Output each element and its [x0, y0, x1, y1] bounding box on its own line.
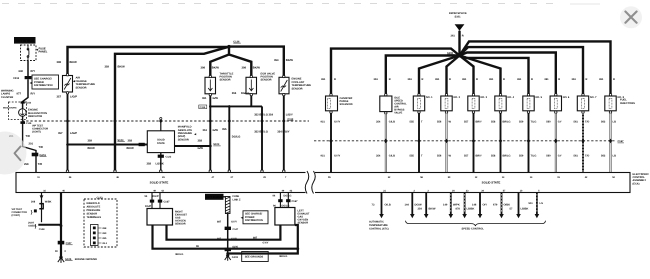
svg-text:679: 679	[493, 203, 498, 206]
label 556 W	[437, 121, 452, 124]
connector DATA hash	[32, 153, 47, 157]
hot in run feed label	[14, 37, 36, 44]
wire 354 ECT to ECA	[283, 96, 285, 173]
wire 208 W/BK	[41, 193, 43, 223]
label 878 LB/BK	[456, 208, 475, 211]
label 358 BK/W on horizontal right	[127, 140, 135, 150]
label 398 BK/W at ACT drop	[57, 61, 78, 64]
wire injector 7 to ECA	[582, 113, 584, 172]
svg-text:GY: GY	[558, 121, 562, 124]
svg-text:558: 558	[491, 155, 496, 158]
label NO. 7	[590, 96, 597, 99]
label 355 DG/LG lower	[222, 128, 240, 138]
svg-text:358: 358	[102, 227, 107, 230]
svg-text:T/O: T/O	[585, 121, 589, 124]
label C113 right	[287, 118, 293, 121]
ECA label	[633, 173, 649, 186]
svg-text:(ECA): (ECA)	[633, 182, 640, 185]
label 562 LB	[601, 121, 616, 124]
svg-text:361: 361	[572, 78, 577, 81]
svg-text:352 BK/LG 354: 352 BK/LG 354	[254, 113, 273, 116]
svg-text:ENGINE GROUND: ENGINE GROUND	[75, 258, 97, 261]
svg-text:C167: C167	[292, 200, 299, 203]
splice C126	[227, 40, 241, 48]
svg-text:G/W: G/W	[198, 147, 204, 150]
label 559 T/LG lower	[519, 155, 536, 158]
label 561 T/O	[574, 121, 590, 124]
engine malfunction indicator lamp	[19, 109, 27, 117]
fuse link Z label	[233, 195, 242, 201]
label 556 W lower	[437, 155, 452, 158]
svg-text:149: 149	[443, 203, 448, 206]
junction dot not-used stub	[60, 224, 63, 227]
connector hashes HEGO wires	[150, 200, 162, 203]
svg-text:354: 354	[418, 208, 423, 211]
ECA pin 59	[448, 176, 451, 179]
splice diamond injector 4	[499, 139, 503, 144]
label 354 BK/W	[418, 208, 436, 211]
fuse panel dashed box	[21, 45, 37, 61]
svg-text:361: 361	[599, 78, 604, 81]
air charge temperature sensor	[63, 74, 73, 95]
left exhaust gas oxygen sensor	[275, 208, 295, 226]
svg-text:C167: C167	[164, 201, 171, 204]
svg-text:R/Y: R/Y	[31, 93, 36, 96]
arrowhead on 208 wire	[40, 195, 44, 199]
svg-text:SOLID STATE: SOLID STATE	[150, 181, 169, 185]
svg-text:561: 561	[574, 121, 579, 124]
feed triangle	[455, 24, 465, 30]
svg-text:555: 555	[410, 121, 415, 124]
wire injector 1 to ECA	[418, 113, 420, 172]
ECA pin 46	[114, 170, 120, 179]
wire injector 8 to ECA	[610, 113, 612, 172]
connector bracket on 208 wire	[39, 203, 44, 210]
svg-text:CLUSTER: CLUSTER	[1, 96, 13, 99]
labels 94 96 DG/LG	[273, 195, 299, 208]
svg-text:BK/W: BK/W	[127, 147, 135, 150]
svg-text:PANEL: PANEL	[39, 51, 48, 54]
svg-text:BR/Y: BR/Y	[476, 121, 482, 124]
wire 94 DG/LG left HEGO left	[279, 193, 281, 208]
svg-text:559: 559	[519, 121, 524, 124]
MAP terminal pins	[91, 225, 108, 246]
wire injector 5 to ECA	[528, 113, 530, 172]
wire canister purge to ECA	[330, 113, 332, 172]
svg-text:DISTRIBUTION: DISTRIBUTION	[34, 84, 53, 87]
svg-text:NO. 8: NO. 8	[618, 96, 625, 99]
label S103	[117, 139, 124, 142]
speed control arrow 511 LG striped	[535, 193, 540, 219]
svg-text:561: 561	[574, 155, 579, 158]
label 558 BR/LG	[491, 121, 511, 124]
svg-text:DG/LG: DG/LG	[232, 136, 241, 139]
svg-text:355: 355	[222, 128, 227, 131]
svg-text:361: 361	[203, 129, 208, 132]
splice diamond injector 6	[554, 139, 558, 144]
warning lamps cluster label	[1, 90, 14, 99]
label 687 GY/Y upper	[217, 220, 237, 223]
svg-text:BK/W: BK/W	[88, 147, 96, 150]
wire 352 to ECA	[261, 106, 263, 172]
label 361 R injector 3	[462, 78, 478, 81]
svg-text:BK/W: BK/W	[286, 59, 294, 62]
svg-text:357: 357	[58, 132, 63, 135]
svg-text:NO. 2: NO. 2	[454, 96, 461, 99]
wire MAP right pin to S103 junction	[175, 145, 211, 147]
ECA pin 7	[283, 170, 287, 179]
svg-text:INDICATOR: INDICATOR	[28, 115, 42, 118]
speed control arrow 354 BK/W	[424, 193, 429, 219]
manifold absolute pressure sensor box	[147, 131, 174, 153]
label 361 G/W upper	[202, 97, 218, 100]
connector dashed line C113 left	[22, 120, 309, 122]
svg-text:640: 640	[19, 70, 24, 73]
ECA break squiggle	[305, 171, 315, 194]
egr valve position sensor label	[261, 72, 276, 81]
svg-text:687: 687	[217, 220, 222, 223]
label 361 G/W lower	[203, 129, 219, 132]
svg-text:G/LB: G/LB	[389, 121, 395, 124]
fuel injector NO. 6	[550, 94, 561, 114]
svg-text:878: 878	[456, 208, 461, 211]
svg-text:398: 398	[242, 66, 247, 69]
svg-text:R: R	[586, 78, 588, 81]
connector C218 hash	[13, 76, 31, 80]
svg-text:G/W: G/W	[213, 129, 219, 132]
fuel injector NO. 2	[441, 94, 452, 114]
hot in run label 2	[205, 194, 224, 200]
fuel injector NO. 3	[468, 94, 479, 114]
wire 201 below indicator	[23, 116, 36, 172]
label NO. 8	[618, 96, 625, 99]
label 560 GY lower	[546, 155, 562, 158]
label NO. 4	[508, 96, 515, 99]
splice diamond injector 7	[581, 139, 585, 144]
label 562 LB lower	[601, 155, 616, 158]
svg-text:LG: LG	[540, 202, 544, 205]
wire HEGO ground BK/LG	[153, 225, 298, 249]
label NO. 1	[426, 96, 433, 99]
label 361 R injector 2	[435, 78, 451, 81]
label 511 LG	[529, 202, 544, 205]
svg-text:560: 560	[546, 121, 551, 124]
svg-text:555: 555	[410, 155, 415, 158]
fuse panel label	[36, 47, 48, 53]
svg-text:BK/W: BK/W	[70, 61, 78, 64]
ECA pin 29	[261, 170, 267, 179]
svg-text:354 L/G/Y: 354 L/G/Y	[277, 130, 289, 133]
label 361 R canister	[321, 78, 336, 81]
label 921 GY/Y canister	[321, 121, 341, 158]
svg-text:}: }	[31, 209, 33, 214]
wire C126 to TP and EGR sensors	[210, 47, 251, 78]
bus wire from C126 to ECT	[229, 47, 284, 78]
vip test connector cont label	[12, 208, 37, 217]
svg-text:L/G/P: L/G/P	[70, 96, 77, 99]
fuel injector NO. 7	[577, 94, 588, 114]
svg-text:BK/W: BK/W	[212, 66, 220, 69]
speed control arrow 878 LB/BK striped	[462, 193, 467, 219]
ECA pin 14	[530, 176, 533, 179]
junction dots ground wires	[226, 247, 299, 255]
label 208 W/BK	[31, 200, 52, 203]
ground G103	[225, 254, 239, 261]
connector C147 hash	[225, 227, 239, 231]
svg-text:354: 354	[376, 155, 381, 158]
svg-text:W/BK: W/BK	[45, 200, 52, 203]
label 201 T/R second	[29, 143, 43, 149]
map sensor top stub wire	[160, 118, 162, 131]
wire splice to injector 7	[460, 47, 584, 94]
svg-text:BR/Y: BR/Y	[476, 155, 482, 158]
label NO. 2	[454, 96, 461, 99]
label 201 T/R	[9, 135, 30, 138]
automatic temperature control label	[369, 221, 389, 231]
svg-text:144: 144	[405, 203, 410, 206]
svg-text:556: 556	[437, 121, 442, 124]
label 258 T/R above ECA	[24, 163, 42, 166]
warning lamps cluster dashed outline	[9, 102, 27, 120]
svg-text:D: D	[459, 26, 461, 29]
svg-text:921: 921	[321, 121, 326, 124]
svg-text:398: 398	[57, 61, 62, 64]
speed control brace	[406, 221, 546, 226]
from splice S101 label	[449, 12, 467, 18]
svg-text:SENSOR: SENSOR	[76, 86, 87, 89]
label 90 0	[55, 250, 67, 253]
label 144 DG/W	[405, 203, 423, 206]
svg-text:T/LG: T/LG	[531, 121, 537, 124]
label 359 BK/W on horizontal	[88, 140, 96, 150]
svg-text:DG/LG: DG/LG	[282, 204, 290, 207]
svg-text:O/Y: O/Y	[483, 203, 488, 206]
label 560 GY	[546, 121, 562, 124]
label 687 GY/Y lower	[217, 237, 237, 240]
ECA pin 45	[160, 170, 166, 179]
svg-text:T/R: T/R	[26, 135, 30, 138]
svg-text:557: 557	[464, 121, 469, 124]
svg-text:BK/LG: BK/LG	[280, 255, 288, 258]
wire 96 DG/LG left HEGO right	[287, 193, 289, 208]
svg-text:354: 354	[376, 121, 381, 124]
wire splice to injector 8	[460, 41, 611, 94]
svg-text:W/PK: W/PK	[453, 203, 460, 206]
label 358 on map right wire	[198, 140, 204, 150]
svg-text:R: R	[462, 34, 464, 37]
fuel injector NO. 8	[605, 94, 616, 114]
svg-text:S101: S101	[455, 15, 462, 18]
label 354 G/LB isc	[376, 121, 395, 158]
svg-text:562: 562	[601, 121, 606, 124]
label 352 BK/LG 354 L/G/Y upper	[254, 113, 293, 116]
svg-text:L/G/P: L/G/P	[70, 132, 77, 135]
svg-text:556: 556	[437, 155, 442, 158]
svg-text:GY: GY	[558, 155, 562, 158]
splice diamond injector 2	[445, 139, 449, 144]
wire 355 to ECA	[228, 106, 230, 172]
fuel injector NO. 1	[413, 94, 424, 114]
ECA pin 15	[557, 176, 560, 179]
vip test connector label	[32, 124, 48, 133]
wire 358 MAP bottom to ECA	[160, 153, 162, 173]
ECA pin 12	[475, 176, 478, 179]
svg-text:GY/Y: GY/Y	[334, 121, 340, 124]
label 361 R injector 7	[572, 78, 588, 81]
label 355 DG/LG upper	[232, 92, 250, 95]
C113 crossing diamonds left	[66, 119, 286, 123]
svg-text:562: 562	[601, 155, 606, 158]
wire 687 fuse link down	[227, 214, 229, 254]
svg-text:HOT IN RUN: HOT IN RUN	[16, 39, 35, 43]
speed control arrow 679 O/BK striped	[499, 193, 504, 219]
wire injector 3 to ECA	[473, 113, 475, 172]
wire splice to injector 4	[460, 56, 501, 95]
label 640 R/Y	[19, 70, 36, 73]
svg-text:NO. 5: NO. 5	[536, 96, 543, 99]
svg-text:C147: C147	[233, 228, 239, 231]
wire injector 4 to ECA	[500, 113, 502, 172]
svg-text:STATE: STATE	[157, 142, 165, 145]
svg-text:T/O: T/O	[585, 155, 589, 158]
svg-text:354: 354	[274, 59, 279, 62]
label 561 T/O lower	[574, 155, 590, 158]
label 977 R/Y	[17, 93, 36, 96]
svg-text:SENSOR: SENSOR	[178, 138, 189, 141]
connector dashed line C113 right	[314, 140, 615, 142]
wire splice to canister purge solenoid	[331, 49, 460, 94]
bus wire 398 BK/W top	[68, 47, 228, 74]
svg-text:SENSOR: SENSOR	[292, 87, 303, 90]
wire splice to injector 2	[447, 56, 460, 95]
svg-text:359: 359	[102, 232, 107, 235]
svg-text:G/LB: G/LB	[389, 155, 395, 158]
svg-text:C123: C123	[166, 156, 172, 159]
close button overlay	[620, 6, 642, 28]
engine coolant temp sensor label	[292, 78, 312, 91]
wire R/Y C218 to cluster	[23, 79, 28, 109]
svg-text:R: R	[422, 78, 424, 81]
svg-text:R: R	[613, 78, 615, 81]
svg-text:361: 361	[435, 78, 440, 81]
label G105 engine ground	[65, 258, 97, 261]
svg-text:208: 208	[31, 200, 36, 203]
svg-text:DG/LG: DG/LG	[284, 195, 292, 198]
fuel injector NO. 4	[495, 94, 506, 114]
wire splice to injector 3	[460, 56, 474, 95]
carousel previous button overlay	[0, 132, 27, 175]
speed control arrow 144 DG/W	[410, 193, 415, 219]
fuel injector NO. 5	[523, 94, 534, 114]
svg-text:G103: G103	[232, 256, 239, 259]
connector C107 hash	[58, 241, 73, 245]
svg-text:R: R	[334, 78, 336, 81]
svg-text:O/BK: O/BK	[504, 203, 511, 206]
speed control arrow 57 LB/BK	[516, 193, 521, 219]
svg-text:361: 361	[489, 78, 494, 81]
label 361 R at splice feed	[451, 34, 464, 37]
splice diamond injector 3	[472, 139, 476, 144]
label 555 T	[410, 121, 424, 124]
label 352 BK/LG 354 L/G/Y lower	[254, 130, 290, 133]
page top edge remnant dashes	[2, 3, 560, 5]
svg-text:BK/W: BK/W	[253, 66, 261, 69]
canister purge solenoid label	[340, 97, 353, 106]
junction dots on 359 run	[66, 143, 116, 146]
speed control arrow 146 O/Y	[478, 193, 483, 219]
label 98 on ground wire	[196, 245, 199, 248]
fuse F1 symbol	[27, 46, 29, 61]
svg-text:C113: C113	[200, 106, 206, 109]
engine coolant temperature sensor	[279, 75, 289, 96]
wire 357 ACT to ECA	[67, 94, 69, 173]
wire 361 TP to ECA	[209, 96, 211, 173]
svg-text:201: 201	[29, 143, 34, 146]
splice S105 hash	[225, 245, 239, 251]
engine malfunction indicator label	[28, 109, 47, 118]
svg-text:CONTROL (ATC): CONTROL (ATC)	[369, 227, 389, 230]
svg-text:INDICATORS: INDICATORS	[3, 107, 17, 110]
label 149 W/PK	[443, 203, 460, 206]
svg-text:SENSOR: SENSOR	[220, 79, 231, 82]
wire EGR pin down	[250, 96, 252, 107]
wire triangle to splice S200	[458, 31, 460, 56]
splice diamond injector 8	[609, 139, 613, 144]
svg-text:361: 361	[462, 78, 467, 81]
label 359 BK/W at bus2 corner	[105, 65, 126, 68]
not used stub	[28, 221, 61, 231]
svg-text:R: R	[389, 78, 391, 81]
svg-text:G/W: G/W	[213, 97, 219, 100]
svg-text:355: 355	[102, 237, 107, 240]
label BK/LG right	[280, 255, 288, 258]
ISC valve label	[394, 96, 407, 114]
svg-text:SPEED CONTROL: SPEED CONTROL	[462, 228, 485, 231]
svg-text:NO. 4: NO. 4	[508, 96, 515, 99]
ECA pin 52	[612, 176, 615, 179]
svg-text:TERMINALS: TERMINALS	[87, 216, 102, 219]
right exhaust gas oxygen sensor	[147, 209, 173, 226]
wire 640 R/Y fuse to C218	[27, 61, 29, 77]
ECA pin 58	[420, 176, 423, 179]
connector C149 hash below lamp	[20, 121, 32, 125]
label 361 R injector 5	[517, 78, 533, 81]
svg-text:LB: LB	[613, 121, 617, 124]
label 558 BR/LG lower	[491, 155, 511, 158]
svg-text:T/R: T/R	[39, 146, 43, 149]
svg-text:361: 361	[517, 78, 522, 81]
svg-text:BK/W: BK/W	[429, 208, 436, 211]
svg-text:361: 361	[321, 78, 326, 81]
map sensor label	[178, 126, 196, 142]
label 94 DG/P	[145, 195, 171, 208]
wire ECA case ground	[60, 193, 62, 257]
wire 94 DG/P right HEGO left	[151, 193, 153, 209]
svg-text:SOLENOID: SOLENOID	[340, 103, 353, 106]
svg-text:C148: C148	[39, 228, 45, 231]
ground G105	[58, 256, 64, 263]
svg-text:357: 357	[57, 96, 62, 99]
svg-text:R: R	[476, 78, 478, 81]
svg-text:(CONT): (CONT)	[12, 214, 21, 217]
svg-text:558: 558	[491, 121, 496, 124]
svg-text:GY/Y: GY/Y	[231, 220, 237, 223]
svg-text:LG/BK: LG/BK	[156, 162, 164, 165]
svg-text:DG/W: DG/W	[415, 203, 423, 206]
speed control arrow 149 W/PK striped	[449, 193, 454, 219]
label 361 R isc	[374, 78, 391, 81]
label 354 BK/W at ECT drop	[274, 59, 293, 62]
